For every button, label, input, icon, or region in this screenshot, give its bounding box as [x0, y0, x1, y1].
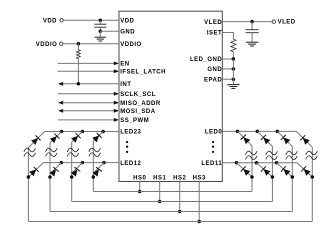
wire left string 2 diagonal+column [50, 132, 62, 212]
resistor R2 ISET [231, 39, 236, 59]
ellipsis LED22-LED13 [126, 141, 128, 153]
wire MISO_ADDR [58, 101, 119, 105]
pin label LED_GND [190, 57, 222, 63]
break marks left string 4 [89, 148, 101, 156]
wire LED0 line [222, 130, 296, 132]
wire VDD to U1 [63, 19, 119, 21]
break marks right string 3 [286, 151, 298, 159]
wire HS1 bus [72, 201, 273, 203]
svg-text:SS_PWM: SS_PWM [120, 118, 149, 124]
terminal VLED [272, 20, 296, 26]
terminal VDDIO [36, 42, 63, 48]
LED D8b (LED11 row) [301, 166, 311, 176]
pin label EN [120, 62, 129, 68]
LED D5b (LED11 row) [241, 166, 251, 176]
svg-text:VDDIO: VDDIO [120, 42, 142, 48]
ground at EPAD [227, 79, 240, 88]
wire right string 3 lower diagonal [277, 163, 293, 177]
node right string 4 join [311, 175, 315, 179]
node LED_GND junction [232, 57, 236, 61]
LED D8a (LED0 row) [300, 135, 310, 145]
svg-text:GND: GND [120, 29, 135, 35]
node left string 3 join [70, 175, 74, 179]
wire MOSI_SDA [58, 109, 119, 113]
svg-text:HS1: HS1 [153, 175, 166, 181]
svg-text:HS3: HS3 [193, 175, 206, 181]
wire VLED to terminal [222, 21, 272, 23]
svg-text:VDDIO: VDDIO [36, 42, 58, 48]
LED D7b (LED11 row) [281, 166, 290, 176]
node VLED/C2 junction [250, 20, 254, 24]
svg-text:LED_GND: LED_GND [190, 57, 222, 63]
capacitor C2 [246, 22, 259, 43]
pin label EPAD [204, 77, 222, 83]
svg-text:LED11: LED11 [201, 161, 222, 167]
node left string 4 join [92, 175, 96, 179]
wire HS3 bus [28, 221, 312, 223]
wire right string 4 lower diagonal [297, 163, 312, 177]
wire GND to U1 [100, 30, 119, 32]
wire HS1 to bus [159, 182, 161, 202]
ground at C2 [246, 42, 259, 46]
pin label MOSI_SDA [120, 109, 156, 115]
wire LED11 line [222, 162, 297, 164]
wire right string 3 diagonal+column [277, 131, 292, 211]
pin label GND [207, 67, 222, 73]
wire right string 4 diagonal+column [296, 131, 312, 221]
node HS0 bus junction [138, 190, 142, 194]
pin label MISO_ADDR [120, 101, 161, 107]
wire SS_PWM [58, 118, 119, 122]
svg-text:VDD: VDD [120, 18, 134, 24]
LED D6b (LED11 row) [261, 166, 270, 175]
LED D4a (LED23 row) [92, 133, 102, 143]
wire left string 1 lower diagonal [28, 163, 43, 178]
wire VDDIO to U1 [63, 43, 119, 45]
node GND junction [232, 59, 236, 71]
svg-text:LED12: LED12 [120, 161, 141, 167]
wire HS2 bus [50, 211, 292, 213]
resistor R1 pull-up [77, 44, 81, 84]
break marks left string 3 [67, 148, 79, 156]
node HS3 bus junction [197, 220, 201, 224]
pin label HS0 [133, 175, 146, 181]
svg-text:GND: GND [207, 67, 222, 73]
node C1/GND junction [99, 30, 103, 34]
node right string 2 join [271, 175, 275, 179]
break marks right string 1 [245, 151, 257, 159]
pin label HS1 [153, 175, 166, 181]
wire ISET [222, 33, 233, 40]
nodes on LED12 line [60, 161, 106, 165]
wire EN [58, 62, 120, 66]
svg-text:INT: INT [120, 82, 131, 88]
wire GND right [222, 68, 233, 70]
svg-text:HS2: HS2 [173, 175, 186, 181]
wire IFSEL_LATCH [58, 69, 120, 73]
svg-text:SCLK_SCL: SCLK_SCL [120, 92, 156, 98]
pin label VDD [120, 18, 134, 24]
nodes on LED0 line [236, 130, 279, 134]
terminal VDD [43, 18, 63, 24]
node HS1 bus junction [158, 200, 162, 204]
svg-text:VLED: VLED [278, 20, 296, 26]
pin label INT [120, 82, 131, 88]
wire left string 1 diagonal+column [28, 132, 44, 222]
svg-text:ISET: ISET [207, 31, 222, 37]
svg-text:VLED: VLED [204, 20, 222, 26]
LED D1a (LED23 row) [31, 135, 41, 145]
LED D3b (LED12 row) [71, 167, 80, 176]
wire HS0 to bus [139, 182, 141, 192]
pin label SCLK_SCL [120, 92, 156, 98]
pin label VDDIO [120, 42, 142, 48]
svg-text:MISO_ADDR: MISO_ADDR [120, 101, 161, 107]
pin label GND [120, 29, 135, 35]
LED D6a (LED0 row) [261, 135, 271, 145]
node right string 3 join [291, 175, 295, 179]
IC U1 body [119, 11, 222, 181]
wire right string 1 lower diagonal [237, 163, 253, 177]
LED D4b (LED12 row) [92, 167, 101, 176]
break marks left string 2 [46, 148, 58, 156]
svg-text:VDD: VDD [43, 18, 57, 24]
break marks left string 1 [24, 148, 36, 156]
wire HS0 bus [93, 191, 252, 193]
wire SCLK_SCL [58, 92, 119, 96]
node INT/R1 junction [77, 82, 81, 86]
pin label LED0 [205, 130, 223, 136]
ground at C1 [95, 31, 107, 41]
svg-text:EN: EN [120, 62, 129, 68]
pin label LED11 [201, 161, 222, 167]
LED D3a (LED23 row) [71, 133, 81, 143]
pin label LED23 [120, 130, 141, 136]
wire right string 2 lower diagonal [257, 163, 273, 177]
LED D2a (LED23 row) [50, 134, 60, 144]
wire right string 1 diagonal+column [238, 131, 253, 191]
wire HS2 to bus [179, 182, 181, 212]
pin label ISET [207, 31, 222, 37]
node VDDIO/R1 junction [77, 42, 81, 46]
LED D5a (LED0 row) [241, 135, 251, 145]
node VDD/C1 junction [99, 19, 103, 23]
svg-text:IFSEL_LATCH: IFSEL_LATCH [120, 69, 166, 75]
pin label HS2 [173, 175, 186, 181]
wire INT [58, 82, 119, 86]
pin label SS_PWM [120, 118, 149, 124]
node left string 2 join [48, 175, 52, 179]
wire LED23 line [45, 131, 120, 133]
wire left string 3 lower diagonal [72, 163, 83, 177]
capacitor C1 [94, 20, 106, 31]
break marks right string 4 [306, 151, 318, 159]
wire LED12 line [43, 162, 119, 164]
LED D2b (LED12 row) [49, 167, 58, 176]
pin label IFSEL_LATCH [120, 69, 166, 75]
wire left string 3 diagonal+column [72, 132, 83, 202]
wire left string 4 diagonal+column [93, 132, 103, 192]
node HS2 bus junction [178, 210, 182, 214]
LED D7a (LED0 row) [281, 135, 291, 145]
node right string 1 join [250, 175, 254, 179]
ellipsis LED1-LED10 [212, 141, 214, 153]
wire EPAD [222, 78, 233, 80]
svg-text:EPAD: EPAD [204, 77, 222, 83]
svg-text:HS0: HS0 [133, 175, 146, 181]
break marks right string 2 [266, 151, 278, 159]
pin label VLED [204, 20, 222, 26]
node left string 1 join [27, 175, 31, 179]
svg-text:LED0: LED0 [205, 130, 223, 136]
nodes on LED23 line [60, 130, 105, 134]
LED D1b (LED12 row) [29, 167, 39, 177]
pin label LED12 [120, 161, 141, 167]
nodes on LED11 line [235, 161, 279, 165]
wire left string 4 lower diagonal [93, 163, 104, 177]
svg-text:MOSI_SDA: MOSI_SDA [120, 109, 156, 115]
wire LED_GND [222, 58, 233, 60]
wire right string 2 diagonal+column [257, 131, 272, 201]
svg-text:LED23: LED23 [120, 130, 141, 136]
pin label HS3 [193, 175, 206, 181]
wire HS3 to bus [198, 182, 200, 222]
wire left string 2 lower diagonal [50, 163, 61, 177]
node EPAD junction [232, 69, 236, 81]
